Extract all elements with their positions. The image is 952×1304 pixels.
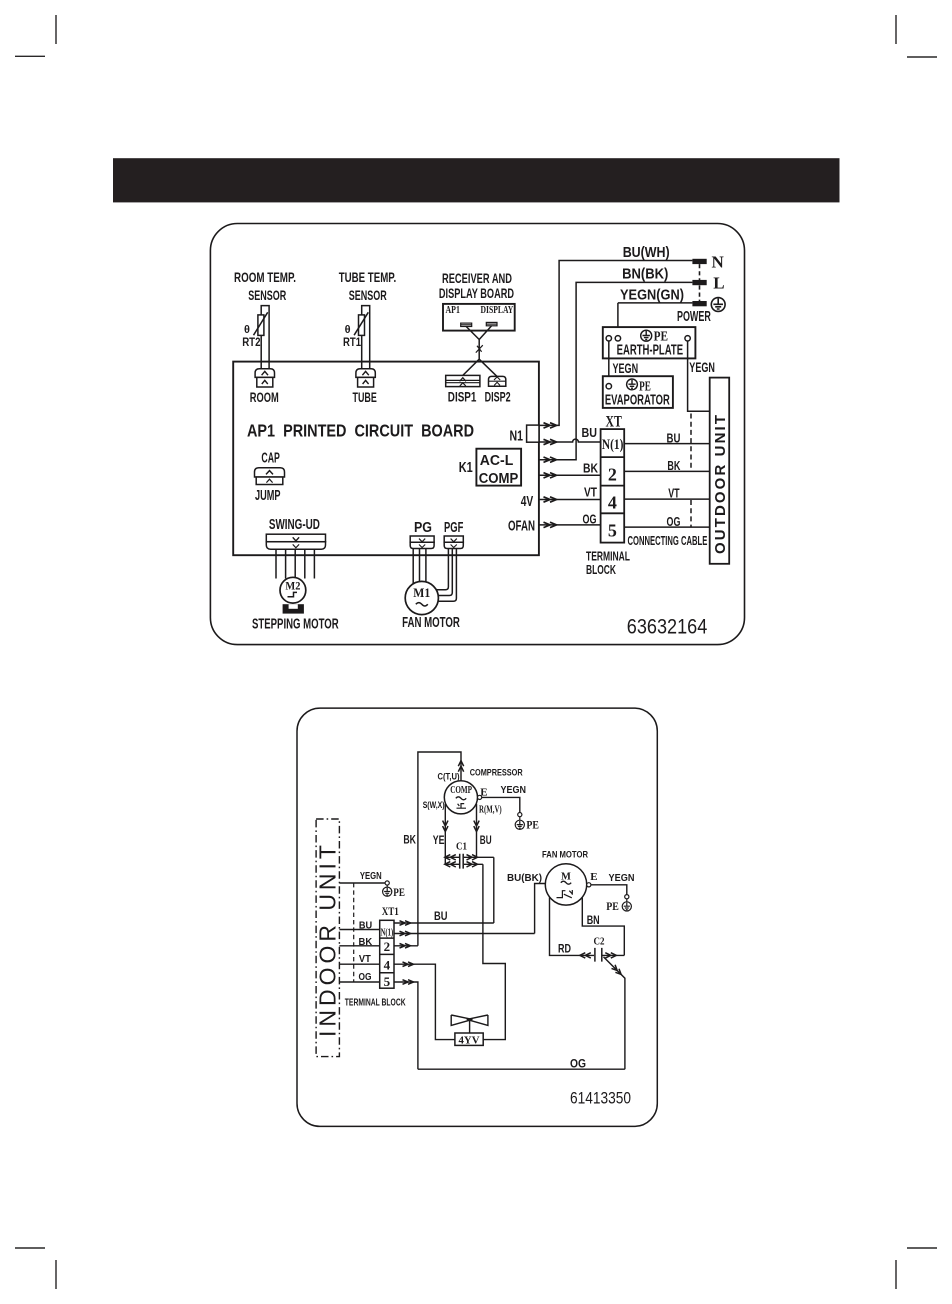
crossed wires from receiver board: [463, 326, 497, 377]
diagram border (rounded): [210, 224, 744, 645]
terminal E circle on COMP: [478, 795, 482, 799]
terminal circle 3 in earth plate: [685, 336, 690, 341]
svg-text:BK: BK: [359, 936, 373, 948]
svg-text:BK: BK: [583, 461, 598, 475]
svg-text:OG: OG: [359, 971, 372, 983]
svg-text:DISPLAY: DISPLAY: [481, 305, 514, 316]
svg-text:L: L: [713, 274, 724, 293]
wire BN from fan motor: [582, 898, 624, 956]
terminal circle YEGN indoor: [385, 881, 389, 885]
sensor RT1: [354, 306, 370, 369]
wire XT1 4 to 4YV: [394, 964, 455, 1039]
connector ROOM: [255, 369, 274, 387]
wire row4 COMP to terminal 2: [539, 474, 601, 476]
sensor RT2: [254, 306, 270, 369]
connector stub 1 in receiver box: [461, 323, 472, 326]
svg-text:4: 4: [384, 957, 391, 972]
arrows RD to C2: [580, 953, 591, 958]
svg-text:TUBE: TUBE: [353, 389, 377, 405]
terminal circle in evaporator: [606, 384, 611, 389]
C1 row1 leads: [445, 856, 494, 858]
wires indoor box to XT1: [339, 930, 379, 983]
dashed connecting-cable boundary upper: [690, 414, 692, 471]
svg-text:BK: BK: [667, 459, 680, 473]
svg-text:AP1: AP1: [446, 305, 460, 316]
svg-text:XT1: XT1: [382, 904, 399, 918]
svg-text:C2: C2: [594, 935, 605, 947]
terminal block XT: [601, 429, 625, 542]
label ROOM TEMP. SENSOR: [234, 269, 296, 303]
svg-text:YEGN: YEGN: [501, 784, 527, 796]
svg-text:INDOOR UNIT: INDOOR UNIT: [314, 845, 340, 1037]
svg-text:BU: BU: [480, 835, 492, 847]
svg-text:TERMINAL: TERMINAL: [586, 549, 630, 563]
earth plate box: [603, 327, 696, 358]
connector JUMP: [255, 468, 285, 485]
wire XT1 N(1) row B (to fan motor BU(BK)): [394, 884, 545, 934]
svg-text:BU: BU: [359, 920, 372, 932]
svg-text:BU: BU: [582, 426, 598, 440]
svg-text:N1: N1: [510, 429, 524, 445]
wire row2 N1 to terminal N(1) with hump: [539, 439, 601, 442]
outdoor unit box: [710, 378, 730, 564]
crop mark bottom-left: [15, 1248, 56, 1289]
svg-text:TUBE TEMP.: TUBE TEMP.: [339, 269, 397, 285]
4YV valve bowtie: [451, 1015, 488, 1033]
arrow up to compressor C: [458, 761, 463, 772]
plug terminal N: [692, 259, 706, 264]
svg-text:AC-L: AC-L: [480, 453, 514, 469]
svg-text:61413350: 61413350: [570, 1090, 631, 1108]
svg-text:E: E: [480, 786, 487, 798]
wire XT1 2 to BK riser: [394, 945, 418, 947]
motor M1 circle: [405, 581, 438, 614]
svg-text:PE: PE: [393, 885, 405, 899]
connector arrows row5: [544, 497, 557, 502]
svg-text:XT: XT: [606, 413, 623, 430]
svg-text:POWER: POWER: [677, 309, 711, 325]
svg-text:2: 2: [608, 464, 617, 484]
label TERMINAL BLOCK: [586, 549, 630, 577]
PE symbol in earth plate: [641, 330, 652, 341]
fan motor circle: [545, 864, 586, 905]
svg-text:2: 2: [384, 939, 391, 954]
connector arrows row1: [544, 423, 557, 428]
stepping motor base (black): [283, 604, 304, 613]
dashed cable boundary (indoor): [353, 883, 355, 982]
svg-text:K1: K1: [459, 460, 473, 476]
svg-text:YE: YE: [433, 835, 445, 847]
svg-text:C1: C1: [456, 841, 467, 853]
svg-text:S(W,X): S(W,X): [423, 800, 445, 811]
svg-text:BK: BK: [403, 834, 416, 846]
diagonal link C2 to OG riser: [604, 957, 625, 1069]
svg-text:YEGN(GN): YEGN(GN): [620, 288, 684, 304]
PCB board outline AP1: [233, 362, 539, 556]
wire E to PE (comp): [482, 797, 520, 812]
svg-text:M2: M2: [285, 581, 300, 593]
svg-text:EARTH-PLATE: EARTH-PLATE: [617, 343, 684, 359]
terminal circle PE fan: [625, 895, 629, 899]
svg-text:YEGN: YEGN: [609, 872, 635, 884]
indoor unit dash-dot box: [316, 819, 339, 1057]
wire XT1 N(1) row A (BU to compressor net): [394, 922, 494, 924]
wire row6 OFAN to terminal 5: [539, 524, 601, 526]
wire XT 5 to outdoor unit: [624, 526, 710, 528]
terminal circle 2 in earth plate: [615, 336, 620, 341]
connector arrows row A: [400, 921, 411, 926]
wire S lead (YE): [444, 804, 446, 864]
svg-text:SENSOR: SENSOR: [349, 287, 387, 303]
terminal circle PE comp: [518, 813, 522, 817]
connector arrows cell 5: [403, 980, 414, 985]
svg-text:COMP: COMP: [450, 785, 472, 796]
svg-text:N: N: [712, 253, 725, 272]
svg-text:TERMINAL BLOCK: TERMINAL BLOCK: [345, 996, 406, 1008]
label RECEIVER AND DISPLAY BOARD: [439, 270, 514, 301]
PE symbol in evaporator: [627, 379, 638, 390]
connector arrows row2: [544, 439, 557, 444]
svg-text:DISPLAY BOARD: DISPLAY BOARD: [439, 285, 514, 301]
bottom OG bus: [418, 1068, 625, 1070]
protector glyph in fan motor: [557, 890, 573, 898]
connector arrows row6: [544, 522, 557, 527]
connector arrows cell 2: [400, 944, 411, 949]
wire row5 4V to terminal 4: [539, 499, 601, 501]
svg-text:63632164: 63632164: [627, 615, 708, 639]
wire XT N(1) to outdoor unit: [624, 443, 710, 445]
connector DISP1: [446, 375, 480, 386]
PE symbol fan: [622, 899, 631, 911]
wire R lead (BU): [476, 804, 478, 857]
svg-text:CAP: CAP: [261, 451, 280, 467]
arrows on diagonal: [612, 965, 622, 975]
arrows down R lead: [474, 821, 479, 832]
crop mark top-left: [15, 15, 56, 56]
svg-text:5: 5: [384, 974, 391, 989]
svg-text:PG: PG: [414, 520, 432, 536]
wire XT 2 to outdoor unit: [624, 470, 710, 472]
svg-text:BU: BU: [667, 431, 681, 445]
svg-text:DISP2: DISP2: [485, 389, 511, 405]
svg-text:R(M,V): R(M,V): [479, 804, 502, 815]
svg-text:FAN MOTOR: FAN MOTOR: [542, 850, 588, 861]
capacitor C1 plates: [460, 854, 464, 869]
svg-text:OFAN: OFAN: [508, 518, 535, 534]
plug terminal PE: [692, 301, 706, 306]
svg-text:BU: BU: [434, 911, 448, 923]
wire RD from fan motor: [550, 897, 595, 955]
svg-text:YEGN: YEGN: [689, 359, 715, 375]
svg-text:θ: θ: [244, 324, 250, 336]
dashed connecting-cable boundary lower: [690, 500, 692, 527]
dashed line linking power plugs: [699, 264, 701, 301]
svg-text:E: E: [590, 871, 597, 883]
svg-text:STEPPING MOTOR: STEPPING MOTOR: [252, 616, 339, 632]
terminal circle 1 in earth plate: [606, 336, 611, 341]
svg-text:RECEIVER AND: RECEIVER AND: [442, 270, 512, 286]
svg-text:RT2: RT2: [242, 335, 261, 349]
connector TUBE: [356, 369, 375, 387]
svg-text:AP1 PRINTED CIRCUIT BOARD: AP1 PRINTED CIRCUIT BOARD: [247, 421, 474, 441]
wire XT1 5 to OG bus: [394, 982, 418, 1069]
svg-text:FAN MOTOR: FAN MOTOR: [402, 615, 460, 631]
svg-text:OUTDOOR UNIT: OUTDOOR UNIT: [712, 415, 729, 554]
C1 row2 leads: [445, 863, 483, 865]
svg-text:4V: 4V: [521, 494, 534, 510]
PE symbol indoor: [383, 885, 392, 896]
capacitor C2 plates: [595, 948, 602, 962]
connector N1 box: [527, 425, 539, 442]
connector arrows row B: [400, 931, 411, 936]
PE symbol comp: [515, 817, 524, 830]
svg-text:COMPRESSOR: COMPRESSOR: [470, 767, 523, 778]
wire row3 AC-L to BN(BK) power L: [539, 282, 692, 459]
label TUBE TEMP. SENSOR: [339, 269, 397, 303]
wire BK riser and top bus: [418, 752, 461, 946]
tilde in COMP: [456, 797, 466, 800]
power earth symbol: [711, 298, 725, 312]
svg-text:BLOCK: BLOCK: [586, 563, 616, 577]
wires PGF to fan motor M1 (bent): [436, 549, 456, 602]
wire XT 4 to outdoor unit: [624, 498, 710, 500]
arrows down S lead: [443, 821, 448, 832]
crop mark bottom-right: [896, 1248, 937, 1289]
motor M2 circle: [280, 577, 306, 603]
connector arrows cell 4: [403, 962, 414, 967]
connector PG: [410, 536, 434, 549]
arrows C2 right: [605, 953, 616, 958]
svg-text:M1: M1: [413, 585, 430, 600]
svg-text:VT: VT: [668, 487, 680, 501]
wires SWING-UD to stepping motor: [276, 549, 314, 578]
crop mark top-right: [896, 15, 937, 57]
connector arrows row4: [544, 473, 557, 478]
svg-text:PE: PE: [606, 899, 619, 913]
wire YEGN left (earth plate to evaporator): [608, 341, 610, 384]
wires PG to fan motor M1: [413, 549, 426, 585]
relay K1 box AC-L COMP: [476, 449, 521, 486]
svg-text:VT: VT: [359, 953, 371, 965]
wire BU net C1 to N(1): [493, 857, 495, 923]
tilde in M1: [416, 603, 428, 606]
diagram border (rounded): [297, 708, 657, 1126]
svg-text:OG: OG: [583, 512, 597, 526]
wire row1 N1 to BU(WH) power N: [539, 261, 692, 426]
piston glyph in COMP: [457, 804, 467, 809]
svg-text:VT: VT: [584, 485, 597, 499]
wire E fan to PE: [591, 885, 627, 895]
wire YEGN(GN) to earth plate: [618, 303, 693, 336]
receiver/display board box: [443, 304, 515, 331]
svg-text:ROOM: ROOM: [250, 389, 279, 405]
svg-text:EVAPORATOR: EVAPORATOR: [605, 393, 670, 409]
svg-text:RT1: RT1: [343, 335, 361, 349]
header black bar: [113, 158, 840, 202]
svg-text:COMP: COMP: [479, 471, 519, 487]
svg-text:PGF: PGF: [444, 520, 463, 536]
svg-text:RD: RD: [558, 944, 571, 956]
svg-text:SENSOR: SENSOR: [248, 287, 286, 303]
svg-text:θ: θ: [345, 324, 351, 336]
connector arrows row3: [544, 457, 557, 462]
svg-text:5: 5: [608, 521, 617, 541]
svg-text:BU(BK): BU(BK): [507, 872, 542, 884]
C2 right lead: [602, 954, 625, 956]
svg-text:SWING-UD: SWING-UD: [269, 517, 320, 533]
svg-text:N(1): N(1): [381, 927, 394, 938]
connector stub 2 in receiver box: [486, 322, 497, 325]
plug terminal L: [692, 280, 706, 285]
4YV coil box: [455, 1033, 483, 1045]
svg-text:YEGN: YEGN: [360, 870, 382, 882]
evaporator box: [603, 376, 673, 408]
C1 row1 arrows: [445, 855, 478, 860]
compressor COMP circle: [444, 781, 477, 814]
wire C1 row2 to 4YV right: [483, 864, 505, 1039]
svg-text:BN(BK): BN(BK): [622, 267, 668, 283]
tilde in fan motor: [561, 881, 571, 884]
svg-text:4: 4: [608, 492, 617, 512]
svg-text:DISP1: DISP1: [448, 389, 477, 405]
svg-text:BN: BN: [587, 915, 600, 927]
connector SWING-UD: [266, 534, 325, 549]
terminal block XT1: [380, 920, 394, 988]
svg-text:CONNECTING CABLE: CONNECTING CABLE: [628, 534, 708, 548]
svg-text:JUMP: JUMP: [255, 488, 281, 504]
svg-text:OG: OG: [570, 1058, 586, 1070]
svg-text:BU(WH): BU(WH): [623, 245, 670, 261]
stepper glyph in M2: [288, 592, 298, 596]
svg-text:OG: OG: [667, 515, 681, 529]
svg-text:YEGN: YEGN: [613, 360, 639, 376]
connector DISP2: [489, 376, 506, 386]
svg-text:4YV: 4YV: [459, 1034, 480, 1046]
terminal E circle on fan: [587, 883, 591, 887]
connector PGF: [444, 536, 463, 549]
svg-text:PE: PE: [526, 818, 539, 832]
svg-text:ROOM TEMP.: ROOM TEMP.: [234, 269, 296, 285]
wire YEGN right (earth plate to outdoor unit): [688, 341, 710, 411]
wire YEGN indoor: [339, 882, 385, 884]
svg-text:N(1): N(1): [602, 437, 624, 453]
C1 row2 arrows: [445, 862, 478, 867]
